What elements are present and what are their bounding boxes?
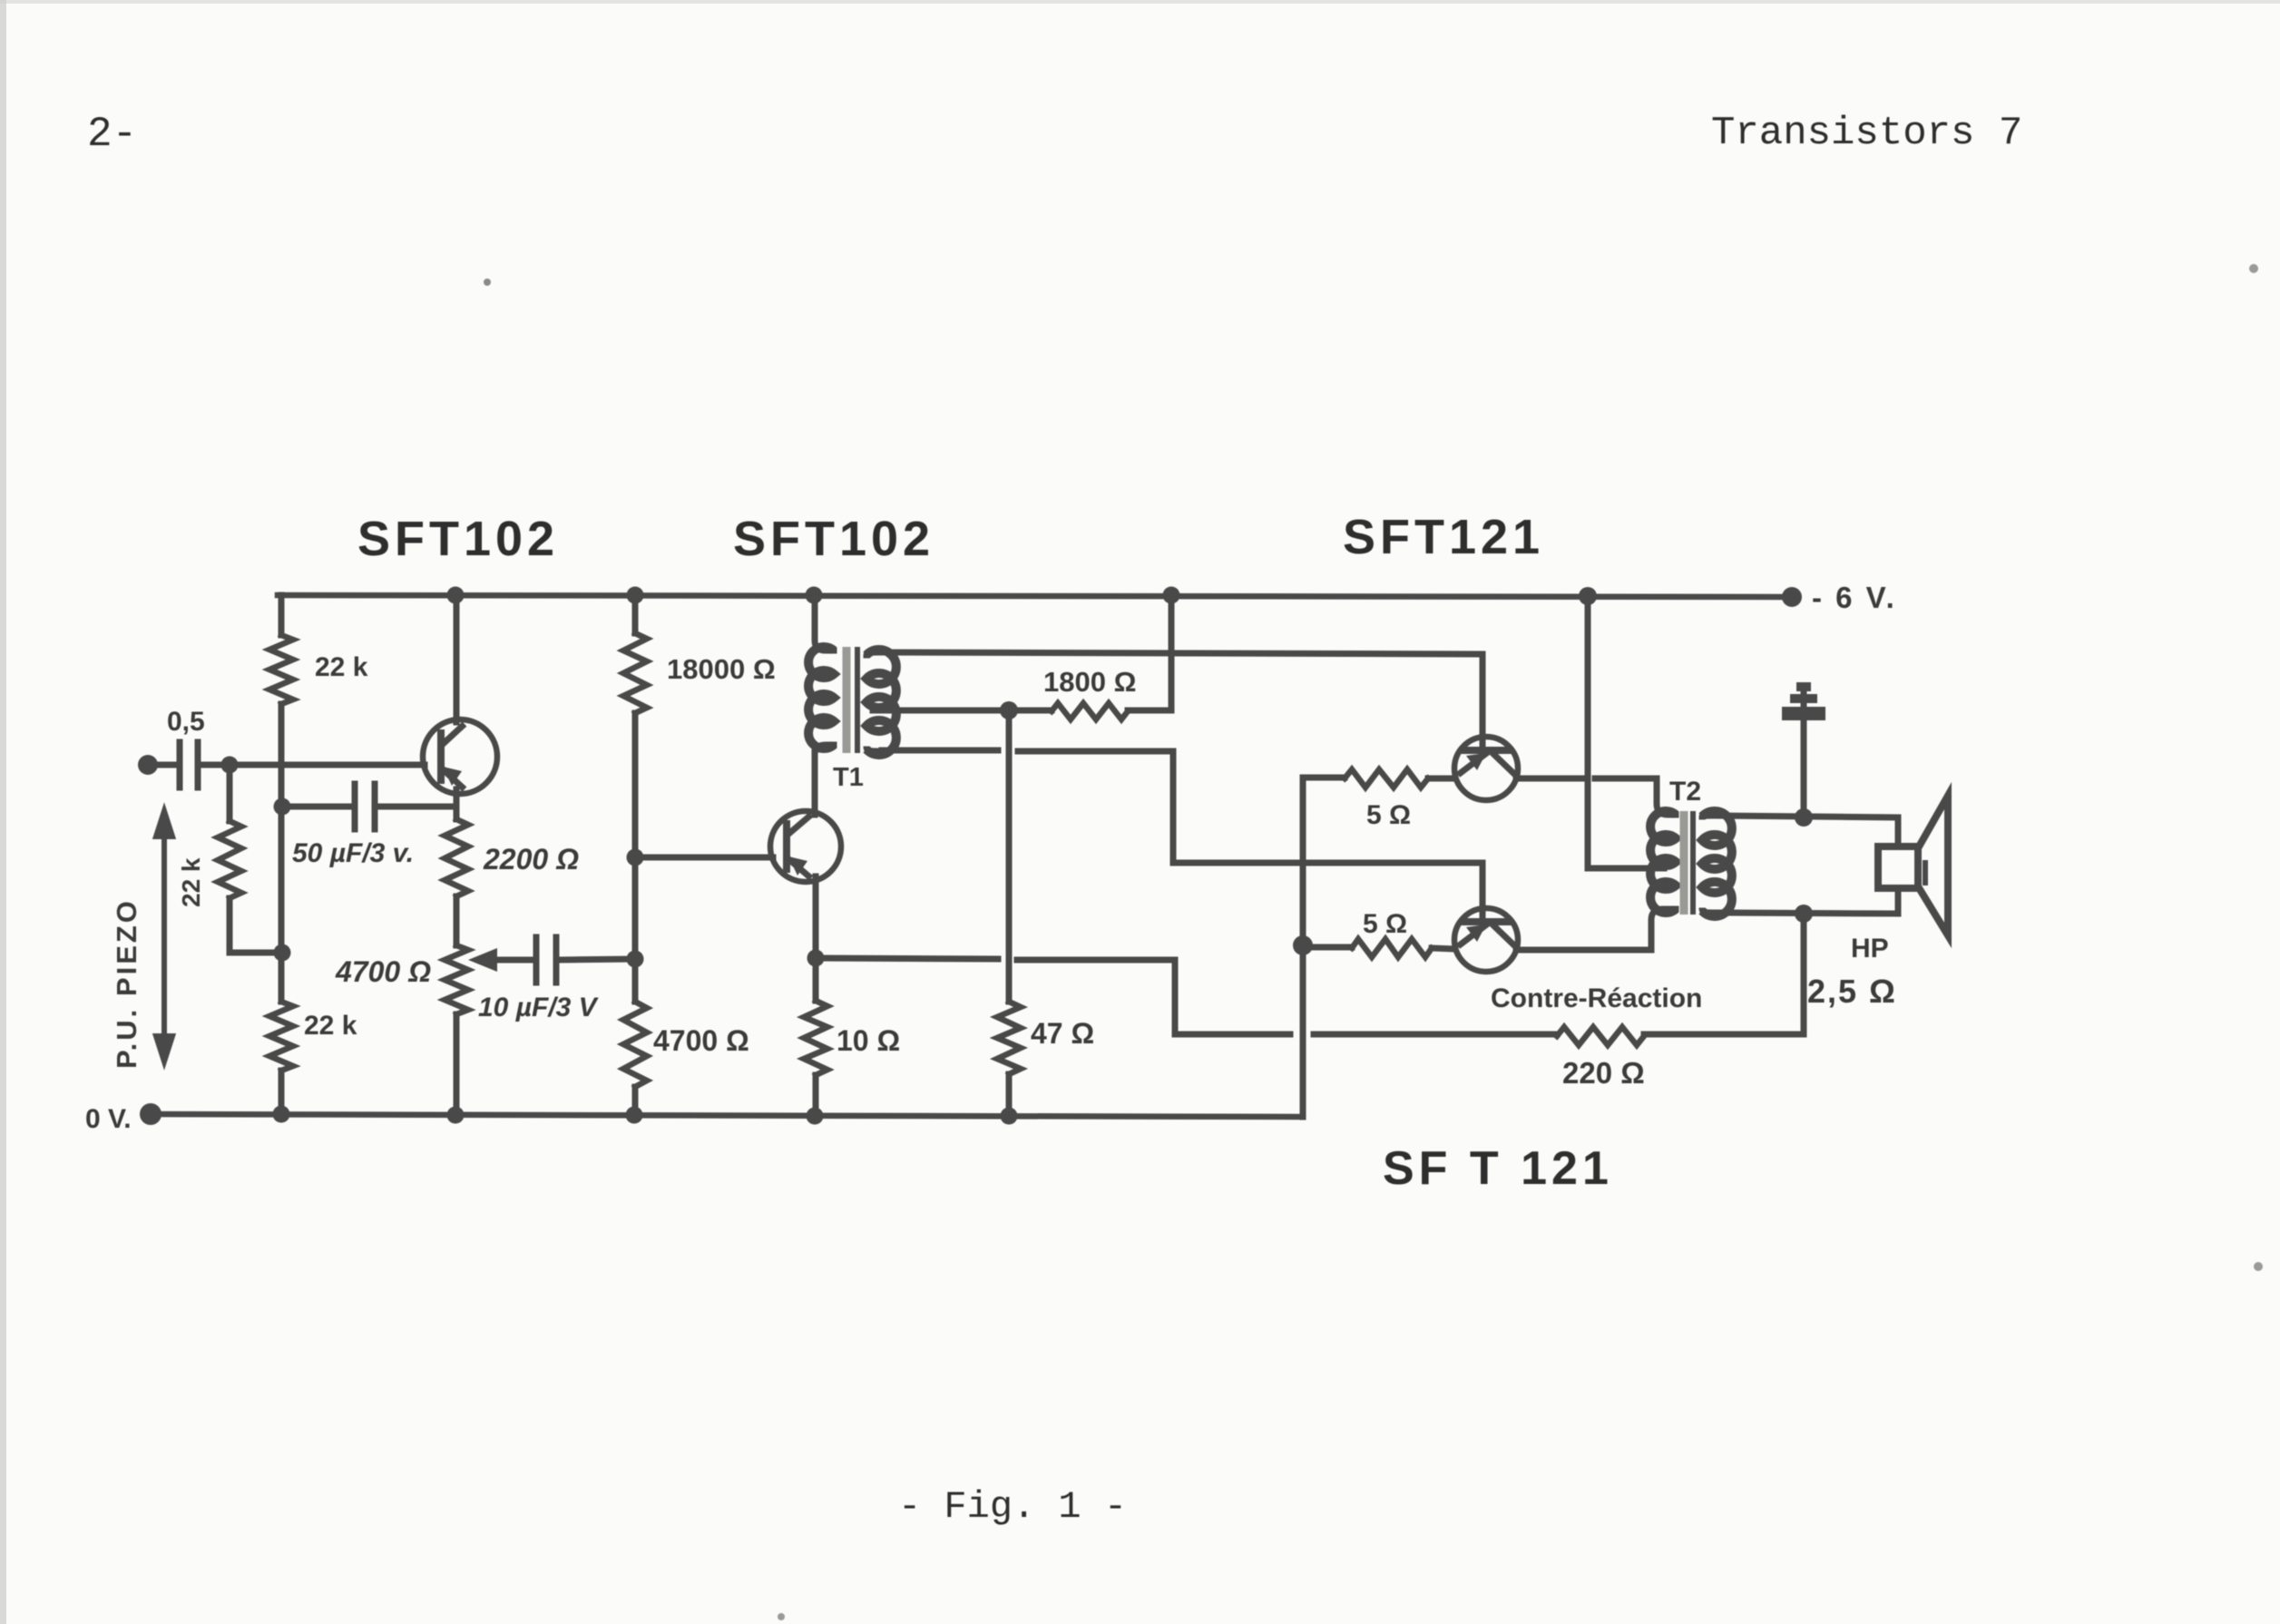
- wire Q2 emitter down: [813, 876, 819, 958]
- svg-text:SFT102: SFT102: [357, 512, 559, 566]
- wire output emitters common vertical: [1300, 778, 1306, 1117]
- wire Q4 collector into T2: [1651, 909, 1676, 950]
- svg-text:Transistors 7: Transistors 7: [1711, 111, 2022, 156]
- svg-text:2200 Ω: 2200 Ω: [483, 843, 579, 876]
- svg-text:0 V.: 0 V.: [85, 1104, 132, 1134]
- wiper arrow of R5: [468, 948, 497, 972]
- node pot on ground rail: [447, 1107, 465, 1124]
- svg-text:T1: T1: [833, 763, 864, 792]
- svg-text:22 k: 22 k: [304, 1011, 357, 1041]
- resistor R11 220 ohm contre-reaction: [1557, 1027, 1644, 1045]
- svg-text:4700 Ω: 4700 Ω: [335, 955, 431, 988]
- wire R11 to speaker node: [1644, 914, 1804, 1034]
- wire tap down: [1006, 710, 1013, 1002]
- resistor R3 22k input bias: [227, 765, 233, 821]
- svg-text:P.U. PIEZO: P.U. PIEZO: [111, 898, 142, 1069]
- scan speck: [2254, 1262, 2263, 1271]
- node divider on ground rail: [273, 1106, 290, 1123]
- scan edge shading left: [0, 0, 6, 1624]
- svg-text:2-: 2-: [87, 111, 137, 158]
- svg-text:5 Ω: 5 Ω: [1366, 800, 1411, 830]
- node R8 on ground rail: [807, 1108, 824, 1125]
- wire R3 to divider node: [230, 950, 282, 956]
- wire Q3 collector into T2: [1657, 778, 1676, 815]
- wire T2 sec top to speaker: [1717, 816, 1898, 845]
- wire left divider top: [279, 595, 285, 635]
- wire divider2 bottom: [632, 1087, 639, 1115]
- node bias junction: [274, 944, 291, 962]
- wire Q1 collector to rail: [454, 595, 460, 722]
- capacitor C3 10uF/3V: [536, 937, 556, 983]
- node Q1 collector on rail: [447, 587, 465, 604]
- wire divider2 middle: [632, 713, 639, 1002]
- scan speck: [2249, 264, 2258, 273]
- wire divider2 top: [632, 595, 639, 633]
- wire Q2 base lead: [635, 855, 773, 861]
- node T1 primary on rail: [806, 587, 823, 604]
- svg-text:SFT121: SFT121: [1343, 510, 1544, 564]
- wire -6V top supply rail: [278, 595, 1792, 597]
- ground chassis symbol: [1782, 682, 1825, 720]
- resistor R9 1800 ohm: [1052, 703, 1128, 719]
- svg-text:50 µF/3 v.: 50 µF/3 v.: [292, 838, 414, 868]
- wire T1 sec bottom to lower base: [882, 748, 998, 754]
- svg-text:10 Ω: 10 Ω: [837, 1024, 900, 1057]
- capacitor C2 50uF/3V: [355, 784, 375, 829]
- wire Q2 collector to T1: [812, 751, 818, 815]
- speaker HP: [1878, 796, 1948, 935]
- node 50uF tap: [274, 798, 291, 816]
- transformer T2 primary winding: [1650, 811, 1676, 913]
- node 5 ohm common junction: [1293, 935, 1313, 955]
- resistor R2 22k lower: [269, 1002, 293, 1071]
- svg-text:4700 Ω: 4700 Ω: [653, 1024, 749, 1057]
- svg-text:220 Ω: 220 Ω: [1562, 1056, 1645, 1090]
- transformer T1 secondary winding: [866, 650, 896, 755]
- wire Q3 collector right: [1516, 776, 1582, 782]
- transistor Q1 SFT102: [423, 719, 497, 794]
- svg-text:HP: HP: [1851, 934, 1889, 964]
- wire rail to T2 center tap: [1588, 596, 1664, 868]
- svg-text:22 k: 22 k: [315, 652, 368, 682]
- node feedback pickoff: [1795, 905, 1813, 923]
- node C3 junction: [627, 951, 644, 968]
- svg-text:- 6 V.: - 6 V.: [1812, 581, 1897, 614]
- wire Q2 emitter feedback run: [816, 958, 998, 959]
- wire T1 center tap: [873, 708, 1009, 714]
- wire base node to Q1 base: [230, 762, 425, 768]
- wire wiper to C3: [495, 957, 533, 964]
- transformer T1 core: [843, 647, 851, 753]
- wire divider middle: [279, 704, 285, 1002]
- svg-text:SF T 121: SF T 121: [1383, 1142, 1613, 1195]
- node divider2 on rail: [627, 587, 644, 604]
- svg-text:10 µF/3 V: 10 µF/3 V: [478, 993, 600, 1022]
- node R10 on ground rail: [1001, 1108, 1018, 1125]
- wire tap to C2: [282, 804, 351, 810]
- resistor R7 4700 ohm: [623, 1002, 647, 1087]
- node input terminal: [138, 755, 158, 775]
- wire tap to R9: [1009, 708, 1052, 714]
- svg-text:18000 Ω: 18000 Ω: [667, 653, 776, 685]
- wire R4 to pot: [454, 896, 460, 945]
- svg-text:Contre-Réaction: Contre-Réaction: [1491, 983, 1702, 1013]
- svg-text:2,5 Ω: 2,5 Ω: [1807, 973, 1897, 1010]
- svg-text:- Fig. 1 -: - Fig. 1 -: [898, 1485, 1127, 1529]
- wire C2 to emitter: [378, 804, 456, 810]
- wire pot to ground rail: [454, 1014, 460, 1115]
- resistor R8 10 ohm: [813, 958, 819, 1001]
- node P.U. PIEZO source arrow: [156, 811, 172, 1061]
- wire R9 to rail: [1128, 595, 1171, 710]
- wire cap to base node: [201, 762, 230, 768]
- transformer T2 secondary winding: [1702, 811, 1732, 916]
- svg-text:47 Ω: 47 Ω: [1031, 1017, 1094, 1050]
- transformer T2 core: [1680, 811, 1688, 915]
- resistor R1 22k upper: [269, 635, 293, 704]
- svg-text:T2: T2: [1669, 777, 1701, 807]
- scan speck: [778, 1613, 785, 1620]
- node base junction Q1: [221, 757, 239, 774]
- wire Q4 collector right: [1516, 947, 1651, 954]
- svg-text:1800 Ω: 1800 Ω: [1043, 666, 1136, 698]
- node center tap junction: [1000, 701, 1018, 719]
- svg-text:5 Ω: 5 Ω: [1363, 909, 1407, 939]
- node 0V rail terminal: [140, 1103, 161, 1125]
- wire R10 to ground rail: [1006, 1074, 1013, 1116]
- resistor R13 5 ohm lower: [1303, 944, 1352, 951]
- node T2 drive on rail: [1579, 587, 1597, 605]
- wire T1 sec top to upper base: [882, 652, 1482, 748]
- node divider2 on ground rail: [626, 1107, 643, 1124]
- node chassis junction: [1795, 808, 1813, 827]
- node R9 on rail: [1163, 587, 1180, 604]
- wire input to coupling cap: [148, 762, 176, 768]
- transistor Q2 SFT102: [770, 811, 841, 882]
- capacitor C1 0,5 input coupling: [180, 742, 198, 788]
- transformer T1 primary winding: [815, 595, 834, 651]
- scan speck: [484, 279, 491, 286]
- transistor Q4 SFT121 lower: [1454, 908, 1518, 972]
- svg-text:0,5: 0,5: [167, 707, 205, 737]
- svg-text:SFT102: SFT102: [733, 512, 935, 566]
- resistor R6 18000 ohm: [623, 633, 647, 713]
- wire divider bottom: [279, 1071, 285, 1114]
- wire C3 to stage2 node: [560, 959, 635, 960]
- node Q2 base junction: [627, 849, 644, 866]
- node -6V rail terminal: [1782, 587, 1802, 607]
- wire T2 sec bottom to speaker: [1717, 891, 1898, 914]
- scan edge shading top: [0, 0, 2280, 4]
- resistor R10 47 ohm: [997, 1002, 1021, 1074]
- resistor R4 2200 ohm emitter: [445, 819, 468, 896]
- resistor R12 5 ohm upper: [1303, 775, 1345, 781]
- node Q2 emitter junction: [807, 950, 825, 967]
- transistor Q3 SFT121 upper: [1454, 737, 1518, 800]
- svg-text:22 k: 22 k: [177, 857, 205, 907]
- wire Q1 emitter down: [454, 789, 460, 819]
- potentiometer R5 4700 ohm: [445, 945, 468, 1014]
- wire 0V bottom ground rail: [151, 1114, 1301, 1117]
